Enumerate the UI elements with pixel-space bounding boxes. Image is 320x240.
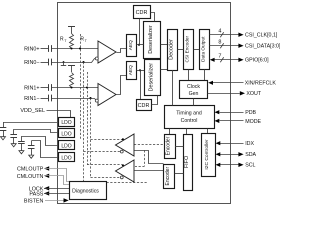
svg-text:Control: Control (181, 118, 198, 124)
svg-text:RIN0−: RIN0− (24, 60, 39, 66)
svg-text:CMLOUTP: CMLOUTP (17, 167, 44, 173)
svg-text:7: 7 (218, 54, 221, 60)
svg-text:Encoder: Encoder (166, 136, 172, 155)
svg-text:MODE: MODE (245, 119, 261, 125)
svg-text:XIN/REFCLK: XIN/REFCLK (245, 81, 277, 87)
svg-text:PASS: PASS (29, 191, 43, 197)
svg-text:PDB: PDB (245, 110, 256, 116)
svg-text:CDR: CDR (138, 103, 150, 109)
svg-text:SCL: SCL (245, 163, 255, 169)
svg-text:4: 4 (218, 29, 221, 35)
svg-text:CDR: CDR (136, 10, 148, 16)
svg-text:GPIO[6:0]: GPIO[6:0] (245, 58, 269, 64)
svg-text:Encoder: Encoder (165, 167, 171, 186)
svg-text:Gen: Gen (189, 91, 199, 97)
svg-text:Data Output: Data Output (201, 36, 206, 62)
svg-text:Timing and: Timing and (176, 111, 202, 117)
svg-text:FIFO: FIFO (184, 156, 190, 168)
svg-text:LDO: LDO (61, 155, 71, 161)
svg-text:Deserializer: Deserializer (148, 25, 154, 54)
svg-text:CMLOUTN: CMLOUTN (17, 174, 44, 180)
svg-text:RIN1+: RIN1+ (24, 85, 39, 91)
svg-text:CSI Encoder: CSI Encoder (185, 35, 190, 62)
svg-text:CSI_CLK[0,1]: CSI_CLK[0,1] (245, 32, 278, 38)
svg-text:CSI_DATA[3:0]: CSI_DATA[3:0] (245, 44, 280, 50)
svg-text:T: T (64, 39, 66, 43)
svg-text:I2C Controller: I2C Controller (204, 139, 210, 170)
svg-text:Decoder: Decoder (169, 39, 175, 60)
svg-text:RIN1−: RIN1− (24, 96, 39, 102)
svg-text:LDO: LDO (61, 143, 71, 149)
svg-text:8: 8 (218, 40, 221, 46)
svg-text:IDX: IDX (245, 141, 254, 147)
svg-text:VDD_SEL: VDD_SEL (20, 108, 45, 114)
svg-text:Deserializer: Deserializer (148, 63, 154, 92)
svg-text:XOUT: XOUT (246, 91, 261, 97)
svg-text:Clock: Clock (187, 84, 200, 90)
svg-text:BISTEN: BISTEN (24, 198, 44, 204)
svg-text:SDA: SDA (245, 152, 256, 158)
svg-text:LDO: LDO (61, 120, 71, 126)
svg-text:AEQ: AEQ (128, 65, 134, 75)
svg-text:Diagnostics: Diagnostics (72, 188, 99, 194)
svg-text:RIN0+: RIN0+ (24, 46, 39, 52)
svg-text:T: T (85, 39, 87, 43)
svg-text:LDO: LDO (61, 132, 71, 138)
svg-text:AEQ: AEQ (128, 40, 134, 50)
